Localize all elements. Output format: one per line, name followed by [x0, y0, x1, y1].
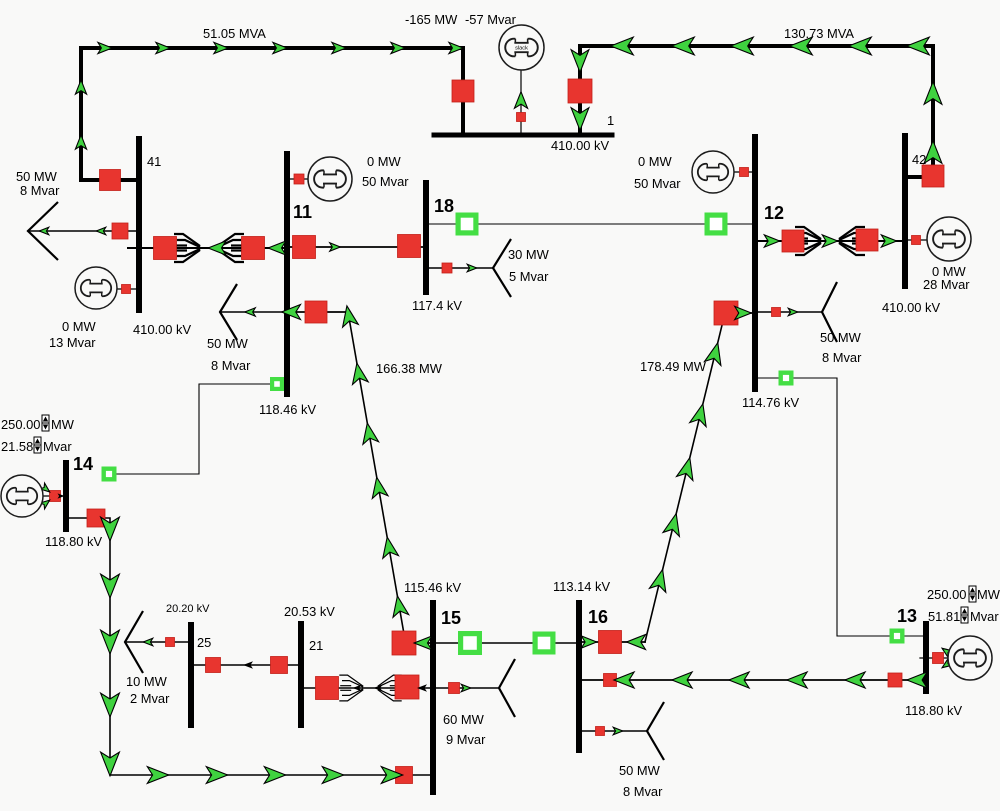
arrow line11-15 at bus15 [414, 636, 432, 650]
arrow flow right top line [214, 42, 228, 53]
open breaker bus12 bottom [781, 373, 792, 384]
svg-text:0 MW: 0 MW [367, 154, 401, 169]
svg-text:118.46 kV: 118.46 kV [259, 402, 316, 417]
arrow xf21-15 a [353, 685, 362, 692]
svg-text:-165 MW: -165 MW [405, 12, 458, 27]
arrow 16-13 left [614, 672, 634, 688]
breaker line42-1 at bus42 [922, 165, 944, 187]
svg-text:20.53 kV: 20.53 kV [284, 604, 335, 619]
svg-text:8 Mvar: 8 Mvar [211, 358, 251, 373]
svg-text:11: 11 [293, 202, 312, 222]
transformer 21-15 winding B [378, 675, 402, 701]
svg-text:50 MW: 50 MW [619, 763, 661, 778]
svg-text:30 MW: 30 MW [508, 247, 550, 262]
svg-text:8 Mvar: 8 Mvar [623, 784, 663, 799]
breaker 16-13 at bus16 [604, 674, 617, 687]
arrow 25-21 [243, 661, 253, 669]
arrow xf12-42 b [822, 235, 837, 247]
bus 15 [430, 600, 436, 795]
arrow diag 11-15 [383, 537, 399, 558]
svg-text:Mvar: Mvar [43, 439, 72, 454]
wire gen12 lead [733, 171, 755, 173]
arrow load25 [143, 638, 153, 646]
arrow load41 b [39, 227, 49, 235]
breaker gen13 [933, 653, 944, 664]
svg-text:410.00 kV: 410.00 kV [551, 138, 609, 153]
svg-text:114.76 kV: 114.76 kV [742, 395, 799, 410]
arrow 16-13 left [845, 672, 865, 688]
arrow 16-13 left [672, 672, 692, 688]
open breaker 15-16 right [535, 634, 553, 652]
svg-text:-57 Mvar: -57 Mvar [465, 12, 517, 27]
open breaker 11 bottom [272, 379, 282, 389]
svg-text:118.80 kV: 118.80 kV [905, 703, 962, 718]
wire transformer line 21-15 [301, 687, 433, 689]
arrow flow right top line [273, 42, 287, 53]
breaker load25 [166, 638, 175, 647]
arrow flow right top line [449, 42, 463, 53]
wire diagonal line 12-16 (178 MW) [645, 317, 724, 642]
svg-text:15: 15 [441, 608, 461, 628]
arrow flow down at bus1 right [571, 50, 589, 73]
wire load line bus18 [426, 267, 493, 269]
svg-text:178.49 MW: 178.49 MW [640, 359, 707, 374]
svg-text:8 Mvar: 8 Mvar [822, 350, 862, 365]
breaker load12 [772, 308, 781, 317]
load bus41 50MW [28, 202, 58, 260]
breaker gen42 [912, 236, 921, 245]
arrow 16-13 left [907, 672, 927, 688]
arrow diag 11-15 [393, 596, 409, 617]
breaker xf12-42 right [856, 229, 878, 251]
load bus15 60MW [499, 659, 515, 717]
svg-text:50 MW: 50 MW [820, 330, 862, 345]
breaker load16 [596, 727, 605, 736]
breaker 11-18 at bus18 [398, 235, 421, 258]
generator G42 [927, 217, 971, 261]
transformer 41-11 winding A [174, 234, 200, 262]
wire stub bus42 to breaker [905, 175, 924, 179]
svg-text:0 MW: 0 MW [62, 319, 96, 334]
svg-text:113.14 kV: 113.14 kV [553, 579, 610, 594]
arrow line14 down [101, 752, 120, 776]
svg-text:50 Mvar: 50 Mvar [362, 174, 409, 189]
load bus16 50MW [647, 702, 664, 760]
arrow line14 down [101, 630, 120, 654]
breaker 25-21 at bus21 [271, 657, 288, 674]
transformer 12-42 winding B [839, 227, 865, 255]
arrow 16-13 left [787, 672, 807, 688]
svg-text:42: 42 [912, 152, 926, 167]
wire load line bus41 [28, 230, 139, 232]
arrow gen14 a [40, 483, 50, 492]
wire gen13 lead [920, 657, 949, 659]
arrow xf21-15 b [374, 685, 383, 692]
open breaker 18-12 at bus12 [707, 215, 725, 233]
svg-text:0 MW: 0 MW [638, 154, 672, 169]
arrow line12-16 at bus16 [581, 636, 596, 648]
breaker line12-16 at bus16 [599, 631, 622, 654]
svg-text:166.38 MW: 166.38 MW [376, 361, 443, 376]
wire load line bus11 [220, 311, 287, 313]
breaker gen11 [294, 174, 304, 184]
breaker xf21-15 right [395, 675, 419, 699]
generator G11 [308, 157, 352, 201]
svg-text:MW: MW [51, 417, 75, 432]
bus 1 (horizontal) [434, 133, 612, 138]
transformer 21-15 winding A [339, 675, 363, 701]
arrow line14 right [322, 767, 343, 784]
wire line 11-18 [287, 246, 426, 248]
bus 42 [902, 133, 908, 289]
breaker load18 [442, 263, 452, 273]
bus 25 [188, 622, 194, 728]
breaker slack gen [517, 113, 526, 122]
svg-text:250.00: 250.00 [1, 417, 40, 432]
breaker 16-13 at bus13 [888, 673, 902, 687]
svg-text:8 Mvar: 8 Mvar [20, 183, 60, 198]
arrow flow left top-right line [790, 37, 813, 55]
arrow load15 [461, 684, 471, 692]
wire stub diagonal to bus16 [579, 641, 645, 643]
svg-text:5 Mvar: 5 Mvar [509, 269, 549, 284]
wire line 11 to diagonal [287, 311, 348, 313]
bus 14 [63, 460, 69, 532]
svg-text:21.58: 21.58 [1, 439, 33, 454]
spinner 13 Mvar [961, 607, 968, 623]
svg-text:410.00 kV: 410.00 kV [882, 300, 940, 315]
svg-text:60 MW: 60 MW [443, 712, 485, 727]
arrow xf41-11 at bus11 [268, 241, 286, 255]
arrow line14 right [147, 767, 168, 784]
arrow xf12-42 c [881, 235, 896, 247]
arrow flow left top-right line [672, 37, 695, 55]
arrow flow left top-right line [731, 37, 754, 55]
wire line 42-1 top-right route [580, 46, 933, 177]
breaker 25-21 at bus25 [206, 658, 221, 673]
wire transformer line 41-11 [128, 247, 287, 249]
arrow load16 [613, 727, 623, 735]
open breaker 18-12 at bus18 [458, 215, 476, 233]
arrow diag 11-15 [372, 477, 388, 498]
breaker line11-15 at bus15 [392, 631, 416, 655]
wire load line bus12 [755, 311, 822, 313]
wire stub bus12 to green sq [755, 377, 780, 379]
arrow gen13 b [942, 659, 952, 668]
transformer 12-42 winding A [795, 227, 821, 255]
svg-text:14: 14 [73, 454, 93, 474]
arrow diag 12-16 [690, 404, 706, 427]
svg-text:50 MW: 50 MW [16, 169, 58, 184]
wire line 41-1 top-left route [81, 48, 463, 180]
generator G13 [948, 636, 992, 680]
breaker gen12 [740, 168, 749, 177]
svg-text:10 MW: 10 MW [126, 674, 168, 689]
svg-text:118.80 kV: 118.80 kV [45, 534, 102, 549]
svg-text:2 Mvar: 2 Mvar [130, 691, 170, 706]
svg-text:13 Mvar: 13 Mvar [49, 335, 96, 350]
wire line 15-16 [433, 642, 579, 644]
arrow diag 11-15 [343, 306, 359, 327]
breaker line14 at bus14 [87, 509, 105, 527]
svg-text:250.00: 250.00 [927, 587, 966, 602]
wire transformer line 12-42 [755, 240, 905, 242]
breaker line11-15 at bus11 [305, 301, 327, 323]
wire line 14 route to bus15 [66, 518, 433, 775]
breaker line42-1 at bus1 [568, 79, 592, 103]
arrow line14 right [264, 767, 285, 784]
svg-text:1: 1 [607, 113, 614, 128]
transformer 41-11 winding B [218, 234, 244, 262]
arrow gen13 a [942, 648, 952, 657]
wire line 25-21 [191, 664, 301, 666]
svg-text:41: 41 [147, 154, 161, 169]
arrow flow left top-right line [907, 37, 930, 55]
svg-text:50 MW: 50 MW [207, 336, 249, 351]
wire gen41 lead [117, 288, 139, 290]
breaker gen14 [50, 491, 61, 502]
svg-text:9 Mvar: 9 Mvar [446, 732, 486, 747]
svg-text:18: 18 [434, 196, 454, 216]
breaker xf41-11 right [242, 237, 265, 260]
arrow flow right top line [391, 42, 405, 53]
arrow line14 down [101, 517, 120, 541]
open breaker at bus13 [892, 631, 903, 642]
arrow xf41-11 mid [208, 241, 226, 255]
breaker xf41-11 left [154, 237, 177, 260]
wire line 12 to diagonal [738, 312, 755, 314]
svg-text:115.46 kV: 115.46 kV [404, 580, 461, 595]
wire thin connector 18-12 [426, 223, 755, 225]
spinner 14 Mvar [34, 437, 41, 453]
wire line 16-13 [579, 679, 926, 681]
open breaker bus14 [104, 469, 115, 480]
breaker load15 [449, 683, 460, 694]
generator G41 [75, 267, 117, 309]
bus 21 [298, 621, 304, 728]
arrow diag 11-15 [363, 423, 379, 444]
bus 18 [423, 180, 429, 295]
svg-text:51.05 MVA: 51.05 MVA [203, 26, 266, 41]
svg-text:21: 21 [309, 638, 323, 653]
breaker line41-1 top [452, 80, 474, 102]
arrow flow right top line [98, 42, 112, 53]
breaker gen41 [122, 285, 131, 294]
generator G14 [1, 475, 43, 517]
svg-text:28 Mvar: 28 Mvar [923, 277, 970, 292]
svg-text:12: 12 [764, 203, 784, 223]
arrow flow up right riser 2 [924, 141, 942, 164]
arrow line14 right [206, 767, 227, 784]
wire thin connector 14-11 [117, 384, 284, 474]
arrow flow right top line [156, 42, 170, 53]
arrow diag 12-16 [677, 458, 693, 481]
spinner 14 MW [42, 415, 49, 431]
breaker line12-16 at bus12 [714, 301, 738, 325]
arrow diag 11-15 [353, 363, 369, 384]
load bus18 30MW [493, 239, 511, 297]
bus 11 [284, 151, 290, 397]
wire load line bus15 60MW [433, 687, 499, 689]
arrow line12-16 at bus12 [735, 306, 752, 319]
svg-text:Mvar: Mvar [970, 609, 999, 624]
arrow flow up left riser [75, 80, 86, 94]
wire thin connector 12-13 [793, 378, 926, 636]
wire gen11 lead [287, 178, 309, 180]
arrow xf21-15 at bus15 [417, 684, 427, 692]
arrow flow left top-right line [611, 37, 634, 55]
breaker line41-1 corner [100, 170, 121, 191]
svg-text:13: 13 [897, 606, 917, 626]
arrow gen14 b [40, 500, 50, 509]
arrow flow right top line [332, 42, 346, 53]
bus 13 [923, 621, 929, 694]
arrow line14 down [101, 574, 120, 598]
breaker load41 [112, 223, 128, 239]
svg-text:51.81: 51.81 [928, 609, 960, 624]
wire load line bus25 [125, 641, 191, 643]
bus 16 [576, 600, 582, 753]
wire diagonal line 11-15 (166 MW) [348, 312, 404, 634]
arrow 16-13 left [729, 672, 749, 688]
arrow gen14 line [58, 493, 65, 498]
load bus11 50MW [220, 284, 237, 340]
arrow slack up [514, 92, 527, 109]
generator G12 [692, 151, 734, 193]
wire slack gen lead [520, 69, 522, 135]
wire gen14 lead [43, 495, 66, 497]
breaker 11-18 at bus11 [293, 236, 316, 259]
arrow diag 12-16 [649, 570, 665, 593]
arrow line12-16 near breaker16 [627, 635, 646, 650]
arrow diag 12-16 [663, 514, 679, 537]
breaker xf21-15 left [316, 677, 339, 700]
svg-text:130.73 MVA: 130.73 MVA [784, 26, 854, 41]
arrow load18 [467, 264, 477, 272]
arrow line11-15 at bus11 [282, 305, 301, 320]
svg-text:25: 25 [197, 635, 211, 650]
spinner 13 MW [969, 586, 976, 602]
arrow xf12-42 a [764, 235, 779, 247]
wire gen42 lead [905, 239, 928, 241]
bus 12 [752, 134, 758, 392]
svg-text:50 Mvar: 50 Mvar [634, 176, 681, 191]
svg-text:MW: MW [977, 587, 1000, 602]
bus 41 [136, 136, 142, 313]
wire stub breaker to bus15 [404, 642, 433, 644]
breaker line14 at bus15 [396, 767, 413, 784]
arrow flow left top-right line [849, 37, 872, 55]
generator slack at bus1 [499, 25, 544, 70]
svg-text:slack: slack [515, 46, 528, 52]
arrow line14 right [381, 767, 402, 784]
svg-text:16: 16 [588, 607, 608, 627]
arrow load12 small [788, 308, 798, 316]
open breaker 15-16 left [461, 634, 480, 653]
load bus25 10MW [125, 611, 143, 673]
arrow load11 small [245, 308, 256, 316]
arrow flow down at bus1 right 2 [571, 108, 589, 131]
load bus12 50MW [822, 282, 837, 342]
svg-text:117.4 kV: 117.4 kV [412, 298, 462, 313]
arrow load41 a [96, 227, 106, 235]
arrow diag 12-16 [705, 343, 721, 366]
arrow 11-18 [330, 243, 341, 251]
arrow flow up left riser 2 [75, 135, 86, 149]
arrow flow up right riser [924, 82, 942, 105]
svg-text:410.00 kV: 410.00 kV [133, 322, 191, 337]
svg-text:20.20 kV: 20.20 kV [166, 603, 210, 615]
wire load line bus16 [579, 730, 647, 732]
arrow line14 down [101, 693, 120, 717]
breaker xf12-42 left [782, 230, 804, 252]
